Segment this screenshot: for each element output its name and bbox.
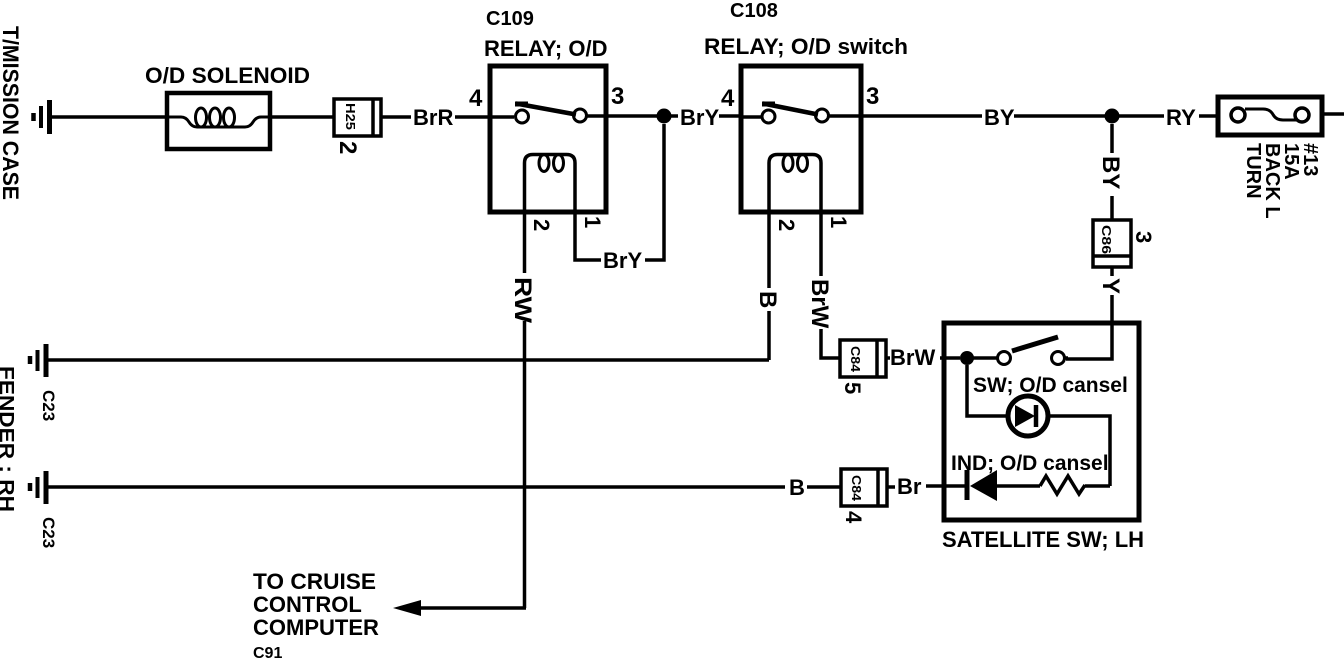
svg-text:4: 4 [469, 85, 483, 112]
fuse F13 box [1218, 97, 1322, 135]
relay C108 box [741, 66, 861, 212]
connector H25 [334, 99, 381, 136]
svg-text:Br: Br [897, 474, 922, 499]
svg-text:RW: RW [509, 277, 536, 323]
connector C84 pin4 [841, 469, 887, 506]
svg-text:3: 3 [1131, 231, 1156, 243]
connector C86 [1093, 220, 1131, 267]
svg-text:C23: C23 [39, 390, 58, 421]
label TO CRUISE CONTROL COMPUTER [253, 569, 379, 640]
wire C109 pin1 down and right [575, 212, 601, 260]
arrowhead to cruise control computer [393, 600, 421, 616]
svg-text:2: 2 [334, 141, 361, 154]
wire H25 to C109 pin 4 [381, 115, 411, 119]
svg-text:TO CRUISE: TO CRUISE [253, 569, 376, 594]
wire diode to resistor [997, 484, 1040, 488]
svg-text:4: 4 [841, 511, 866, 524]
svg-text:SW; O/D cansel: SW; O/D cansel [973, 374, 1128, 397]
svg-text:C109: C109 [486, 8, 534, 30]
fuse F13 element [1231, 108, 1309, 122]
wire C86 down [1110, 267, 1114, 276]
relay C108 switch contacts [741, 109, 861, 123]
wire BY to C86 [1110, 196, 1114, 220]
svg-text:3: 3 [866, 83, 879, 110]
wire BY to node [1014, 114, 1112, 118]
relay C108 coil [769, 155, 821, 213]
svg-text:1: 1 [580, 216, 605, 228]
svg-text:SATELLITE SW; LH: SATELLITE SW; LH [942, 527, 1144, 552]
wire RW to arrow [420, 606, 526, 610]
svg-text:RY: RY [1166, 105, 1196, 130]
svg-text:2: 2 [774, 219, 799, 231]
wire node to sw contact [967, 356, 997, 360]
relay C109 switch contacts [490, 109, 606, 123]
svg-text:B: B [789, 475, 805, 500]
solenoid L1 coil [167, 108, 270, 127]
connector C84 pin5 [840, 340, 886, 377]
ground G1 t/mission case [34, 100, 50, 134]
svg-text:BY: BY [984, 105, 1015, 130]
junction node BrY [657, 109, 672, 124]
wire BrW: C108 pin1 down [821, 212, 840, 358]
svg-text:5: 5 [840, 382, 865, 394]
relay C109 coil [525, 155, 576, 213]
wire node down to LED [967, 365, 1007, 416]
LED IND; O/D cansel [1008, 396, 1048, 436]
wire resistor to right leg [1085, 484, 1110, 488]
wire C84 to BrW label [886, 356, 890, 360]
relay C108 switch blade [762, 104, 818, 115]
svg-text:RELAY; O/D switch: RELAY; O/D switch [704, 34, 908, 59]
wire ground to solenoid [52, 115, 167, 119]
wire fuse to edge [1322, 112, 1344, 116]
junction node BY/RY [1105, 109, 1120, 124]
svg-text:C86: C86 [1099, 225, 1114, 254]
svg-text:FENDER : RH: FENDER : RH [0, 366, 17, 512]
wire BY down from node [1110, 124, 1114, 153]
wire B: C108 pin2 down [767, 212, 771, 360]
relay C109 box [490, 66, 606, 212]
svg-text:BY: BY [1097, 156, 1124, 189]
svg-text:BrY: BrY [603, 248, 642, 273]
svg-text:CONTROL: CONTROL [253, 592, 362, 617]
diode D1 (indicator return) [967, 470, 997, 501]
svg-text:T/MISSION CASE: T/MISSION CASE [0, 26, 23, 200]
wire RW: C109 pin2 down to arrow [523, 212, 527, 608]
svg-text:IND; O/D cansel: IND; O/D cansel [951, 452, 1109, 475]
svg-text:3: 3 [611, 83, 624, 110]
wire node to RY label [1112, 114, 1164, 118]
wire BrY loop up to node [645, 124, 664, 260]
svg-text:BrW: BrW [890, 345, 935, 370]
svg-text:C91: C91 [253, 645, 282, 662]
svg-text:C23: C23 [39, 517, 58, 548]
svg-text:H25: H25 [343, 103, 358, 130]
switch SW; O/D cansel blade [1012, 337, 1058, 351]
wire Br into satellite [926, 484, 966, 488]
svg-text:BrW: BrW [806, 279, 833, 329]
wire LED to right leg [1048, 416, 1110, 486]
ground G2 fender [30, 344, 46, 377]
svg-text:4: 4 [721, 85, 735, 112]
svg-text:1: 1 [826, 216, 851, 228]
svg-text:RELAY; O/D: RELAY; O/D [484, 36, 607, 61]
svg-text:BrR: BrR [413, 105, 453, 130]
wire node to BrY label [664, 114, 678, 118]
svg-text:O/D SOLENOID: O/D SOLENOID [145, 63, 310, 88]
wire C109 pin3 to node [606, 114, 664, 118]
wire C84 to Br label [887, 485, 895, 489]
svg-text:COMPUTER: COMPUTER [253, 615, 379, 640]
wire Y into satellite box [1066, 295, 1112, 359]
wire RY to fuse [1199, 114, 1218, 118]
wire BrR to relay [455, 115, 490, 119]
svg-text:B: B [754, 291, 781, 308]
svg-text:C84: C84 [848, 346, 862, 372]
wire C108 pin3 to BY label [861, 114, 982, 118]
wire B to C84 [807, 485, 841, 489]
junction node sw [960, 351, 974, 365]
svg-text:BrY: BrY [680, 105, 719, 130]
svg-text:C108: C108 [730, 0, 778, 22]
wire fender ground 2 to B label [48, 485, 785, 489]
solenoid L1 box [167, 93, 270, 149]
relay C109 switch blade [515, 104, 576, 115]
satellite switch box [944, 323, 1139, 520]
wire BrW into satellite [940, 356, 960, 360]
resistor R1 [1040, 476, 1085, 494]
svg-text:Y: Y [1097, 278, 1124, 294]
wire solenoid to H25 [270, 115, 334, 119]
svg-text:TURN: TURN [1242, 143, 1264, 199]
switch SW; O/D cansel contacts [998, 352, 1069, 365]
svg-text:C84: C84 [849, 475, 863, 501]
ground G3 fender [30, 471, 46, 504]
wire fender ground 1 to C108 pin2 [48, 358, 769, 362]
wire BrY to C108 pin 4 [719, 114, 741, 118]
svg-text:2: 2 [529, 219, 554, 231]
